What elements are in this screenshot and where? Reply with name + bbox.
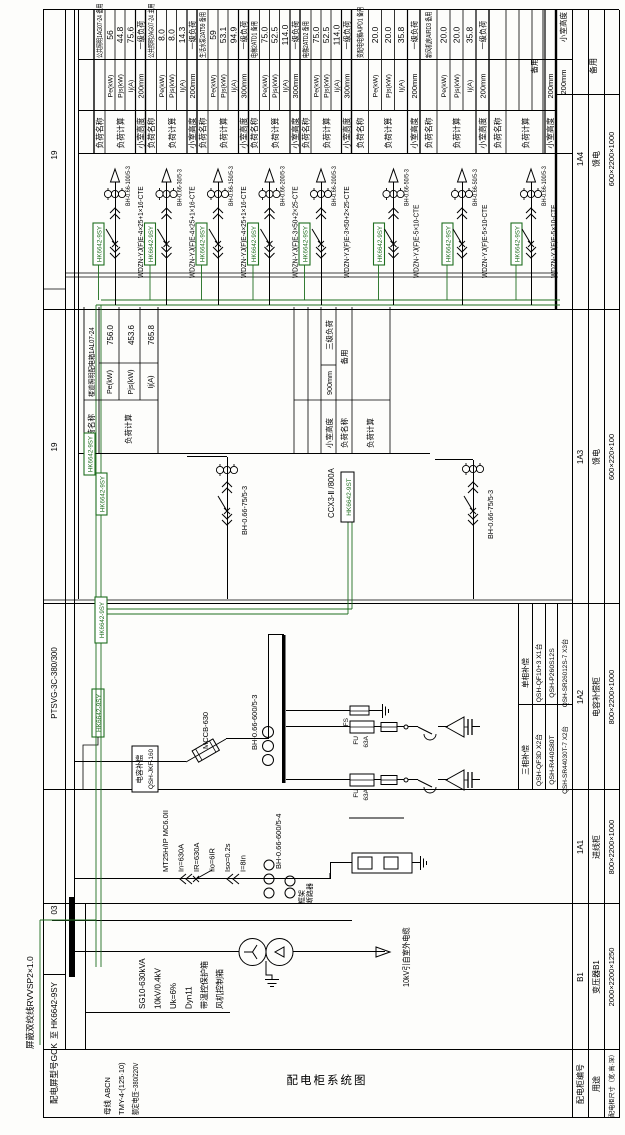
feeder circuit 4 wire (269, 182, 271, 305)
svg-text:小室高度: 小室高度 (545, 117, 555, 148)
panel divider 1A3/1A4 x=825 (43, 309, 619, 311)
1A1 ACB breaker (196, 870, 212, 879)
svg-text:94.9: 94.9 (228, 26, 238, 43)
svg-text:CCX3-Ⅱ /800A: CCX3-Ⅱ /800A (327, 467, 336, 518)
svg-text:小室高度: 小室高度 (558, 12, 568, 42)
1A1 metering box (352, 853, 412, 873)
svg-text:14.3: 14.3 (177, 26, 187, 43)
svg-text:馈电: 馈电 (591, 151, 601, 167)
svg-text:HK6642-9SY: HK6642-9SY (303, 226, 310, 262)
svg-text:备用: 备用 (588, 58, 598, 74)
svg-text:TMY-4-(125·10): TMY-4-(125·10) (117, 1062, 126, 1115)
1A3 feeder wire1 (227, 457, 229, 599)
svg-text:BH-0.66-50/5-3: BH-0.66-50/5-3 (404, 169, 411, 206)
green drop to 1A3 meter C (347, 522, 349, 614)
feeder circuit 1 meter label (93, 223, 104, 265)
svg-text:53.1: 53.1 (218, 26, 228, 43)
1A1 metering ground (412, 862, 420, 864)
svg-text:小室高度: 小室高度 (324, 418, 334, 448)
transformer neutral ground wire (266, 961, 272, 980)
feeder circuit 1 arrow (111, 169, 120, 182)
svg-text:BH-0.66-600/5-4: BH-0.66-600/5-4 (274, 814, 283, 869)
svg-text:20.0: 20.0 (383, 26, 393, 43)
feeder circuit 3 arrow (214, 169, 223, 182)
svg-text:Pjs(kW): Pjs(kW) (118, 74, 125, 98)
svg-text:QSH-R440S80T: QSH-R440S80T (549, 735, 556, 785)
svg-text:BH-0.66-75/5-3: BH-0.66-75/5-3 (486, 490, 495, 539)
svg-text:765.8: 765.8 (147, 324, 156, 345)
svg-text:QSH-SR26012S-7 X3台: QSH-SR26012S-7 X3台 (560, 639, 569, 708)
svg-text:Pe(kW): Pe(kW) (211, 75, 218, 98)
svg-text:BH-0.66-100/5-3: BH-0.66-100/5-3 (126, 166, 133, 206)
svg-text:配电屏型号GCK: 配电屏型号GCK (49, 1043, 59, 1104)
feeder circuit 5 meter label (299, 223, 310, 265)
svg-text:52.5: 52.5 (321, 26, 331, 43)
feeder circuit 4 green drop (252, 265, 254, 300)
svg-text:Pjs(kW): Pjs(kW) (221, 74, 228, 98)
svg-text:35.8: 35.8 (465, 26, 475, 43)
svg-text:75.0: 75.0 (260, 26, 270, 43)
svg-text:MCCB-630: MCCB-630 (201, 712, 210, 749)
svg-text:200mm: 200mm (188, 73, 197, 98)
svg-text:SG10-630kVA: SG10-630kVA (138, 958, 147, 1009)
svg-text:配电柜尺寸（宽·高·深）: 配电柜尺寸（宽·高·深） (608, 1051, 616, 1117)
svg-text:负荷名称: 负荷名称 (424, 117, 434, 148)
svg-text:BH-0.66-30/5-3: BH-0.66-30/5-3 (177, 169, 184, 206)
svg-text:44.8: 44.8 (115, 26, 125, 43)
feeder circuit 5 wire (321, 182, 323, 305)
1A3 feeder1 meter green label (84, 433, 95, 475)
svg-text:Ij(A): Ij(A) (231, 80, 238, 92)
svg-text:电容补偿: 电容补偿 (135, 755, 144, 784)
svg-text:风机控制箱: 风机控制箱 (215, 969, 225, 1009)
svg-text:75.0: 75.0 (311, 26, 321, 43)
svg-text:200mm: 200mm (559, 69, 568, 94)
svg-text:300mm: 300mm (343, 73, 352, 98)
feeder circuit 6 meter label (374, 223, 385, 265)
svg-text:HK6642-9SY: HK6642-9SY (148, 226, 155, 262)
feeder circuit 3 wire (218, 182, 220, 305)
svg-text:800×2200×1000: 800×2200×1000 (607, 820, 616, 875)
svg-text:200mm: 200mm (546, 73, 555, 98)
svg-text:56: 56 (105, 30, 115, 40)
svg-text:配电柜系统图: 配电柜系统图 (287, 1074, 368, 1087)
10kV incoming arrow (376, 947, 390, 957)
svg-text:HK6642-9SY: HK6642-9SY (100, 476, 107, 512)
svg-text:Pjs(kW): Pjs(kW) (272, 74, 279, 98)
svg-text:HK6642-9SY: HK6642-9SY (88, 436, 95, 472)
feeder circuit 7 arrow (458, 169, 467, 182)
svg-text:Ij(A): Ij(A) (334, 80, 341, 92)
svg-text:HK6642-9SY: HK6642-9SY (200, 226, 207, 262)
svg-text:BH-0.66-200/5-3: BH-0.66-200/5-3 (280, 166, 287, 206)
svg-text:1A4: 1A4 (576, 151, 585, 166)
svg-text:BH-0.66-75/5-3: BH-0.66-75/5-3 (240, 486, 249, 535)
fuse FU 63A (350, 721, 374, 733)
feeder circuit 4 meter label (248, 223, 259, 265)
summary table line y=556 (555, 10, 557, 310)
svg-text:8.0: 8.0 (167, 29, 177, 41)
summary col x=1040 (557, 94, 619, 96)
feeder circuit 6 arrow (389, 169, 398, 182)
top row line y=65 (65, 10, 67, 1050)
svg-text:电容补偿柜: 电容补偿柜 (591, 677, 601, 717)
feeder circuit 5 green drop (304, 265, 306, 300)
1A2 capacitor branch x=408 wire (286, 726, 350, 728)
svg-text:35.8: 35.8 (396, 26, 406, 43)
contact dot (404, 725, 408, 729)
svg-text:19: 19 (50, 442, 59, 451)
band 7 boundary (419, 10, 421, 154)
svg-text:进线柜: 进线柜 (591, 835, 601, 859)
1A1 PT tap wire x=214 (52, 920, 352, 922)
svg-text:03: 03 (50, 905, 59, 914)
svg-text:I=8In: I=8In (239, 855, 248, 872)
svg-text:FU: FU (353, 789, 360, 798)
svg-text:WDZN-YJ(F)E-3×50+2×25-CTE: WDZN-YJ(F)E-3×50+2×25-CTE (344, 186, 351, 278)
feeder circuit 1 wire (115, 182, 117, 305)
svg-text:Dyn11: Dyn11 (185, 986, 194, 1009)
feeder circuit 5 arrow (317, 169, 326, 182)
line y=543 (542, 10, 544, 154)
green exit horizontal (39, 920, 41, 1045)
svg-text:QSH-QF10+3 X1台: QSH-QF10+3 X1台 (534, 643, 543, 702)
svg-text:小室高度: 小室高度 (136, 117, 146, 148)
svg-text:QSH-SR44030T-7 X2台: QSH-SR44030T-7 X2台 (560, 726, 569, 794)
svg-text:一级负荷: 一级负荷 (410, 21, 419, 50)
svg-text:QSH-P260S12S: QSH-P260S12S (549, 648, 556, 698)
1A3 meter C label (341, 472, 354, 522)
svg-text:20.0: 20.0 (452, 26, 462, 43)
band 6 boundary (351, 10, 353, 154)
band 2 boundary (145, 10, 147, 154)
svg-text:FS: FS (343, 717, 350, 726)
1A2 wire to CTs (226, 738, 268, 740)
svg-text:Uk=6%: Uk=6% (169, 983, 178, 1009)
feeder circuit 2 wire (166, 182, 168, 305)
svg-text:三级负荷: 三级负荷 (324, 320, 334, 350)
svg-text:300mm: 300mm (240, 73, 249, 98)
svg-text:负荷名称: 负荷名称 (355, 117, 365, 148)
band 7 row lines (436, 10, 438, 154)
feeder circuit 8 wire (531, 182, 533, 305)
1A2 riser to cap bus (268, 634, 284, 636)
panel divider margin/B1 x=85 (43, 1049, 619, 1051)
svg-text:负荷计算: 负荷计算 (452, 117, 462, 148)
svg-text:900mm: 900mm (325, 371, 334, 395)
feeder circuit 8 arrow (527, 169, 536, 182)
feeder circuit 2 meter label (145, 223, 156, 265)
svg-text:负荷计算: 负荷计算 (321, 117, 331, 148)
1A3 feeder1b meter green label (95, 597, 107, 643)
feeder circuit 1 green drop (98, 265, 100, 300)
svg-text:Ij(A): Ij(A) (128, 80, 135, 92)
svg-text:负荷名称: 负荷名称 (339, 418, 349, 448)
1A2 compensation table (518, 604, 520, 790)
svg-text:Pjs(kW): Pjs(kW) (386, 74, 393, 98)
svg-text:B1: B1 (576, 972, 585, 982)
svg-text:2000×2200×1250: 2000×2200×1250 (607, 948, 616, 1007)
svg-text:200mm: 200mm (479, 73, 488, 98)
svg-text:电梯2ATD1 备用: 电梯2ATD1 备用 (250, 21, 259, 58)
svg-text:63A: 63A (363, 735, 370, 747)
green exit riser (40, 919, 96, 921)
svg-text:WDZN-YJ(F)E-5×10-CTE: WDZN-YJ(F)E-5×10-CTE (551, 204, 558, 278)
svg-text:负荷计算: 负荷计算 (115, 117, 125, 148)
svg-text:Pjs(kW): Pjs(kW) (126, 369, 135, 394)
feeder circuit 7 green drop (446, 265, 448, 300)
svg-text:负荷计算: 负荷计算 (270, 117, 280, 148)
green 1A4 riser pair (96, 304, 560, 306)
svg-text:一级负荷: 一级负荷 (343, 21, 352, 50)
band 1 row lines (104, 10, 106, 154)
svg-text:负荷名称: 负荷名称 (198, 117, 208, 148)
svg-text:负荷计算: 负荷计算 (123, 414, 133, 444)
svg-text:HK6642-9SY: HK6642-9SY (99, 602, 106, 638)
svg-text:QSH-JKF-160: QSH-JKF-160 (148, 748, 155, 789)
feeder circuit 2 arrow (162, 169, 171, 182)
svg-text:Pjs(kW): Pjs(kW) (454, 74, 461, 98)
svg-text:200mm: 200mm (137, 73, 146, 98)
1A2 incoming wire (74, 761, 186, 763)
svg-text:负荷名称: 负荷名称 (493, 117, 503, 148)
1A1 meter circles (285, 888, 295, 898)
svg-text:负荷计算: 负荷计算 (218, 117, 228, 148)
band 5 boundary (299, 10, 301, 154)
svg-text:1A1: 1A1 (576, 839, 585, 854)
line y=85 B1 top (85, 904, 87, 1050)
svg-text:8.0: 8.0 (157, 29, 167, 41)
svg-text:In=630A: In=630A (177, 844, 186, 872)
svg-text:HK6642-9SY: HK6642-9SY (97, 226, 104, 262)
svg-text:Pe(kW): Pe(kW) (105, 370, 114, 394)
summary table line y=572 (572, 10, 574, 1118)
feeder circuit 7 wire (462, 182, 464, 305)
svg-text:至 HK6642-9SY: 至 HK6642-9SY (50, 981, 59, 1039)
svg-text:114.0: 114.0 (331, 24, 341, 45)
capacitor plates (467, 772, 469, 788)
green 1A3 riser pair (101, 613, 348, 615)
contact dot (404, 778, 408, 782)
summary table line y=604 (604, 10, 606, 1118)
1A2 label connection (83, 737, 98, 790)
svg-text:QSH-QF3D X2台: QSH-QF3D X2台 (534, 734, 543, 786)
band 3 row lines (207, 10, 209, 154)
svg-text:Ij(A): Ij(A) (282, 80, 289, 92)
feeder circuit 8 green drop (515, 265, 517, 300)
band 5 row lines (310, 10, 312, 154)
transformer B1 HV-LV wire (75, 951, 239, 953)
svg-text:带温控保护箱: 带温控保护箱 (199, 961, 209, 1009)
transformer B1 winding D (266, 939, 293, 966)
svg-text:BH-0.66-100/5-3: BH-0.66-100/5-3 (542, 166, 549, 206)
svg-text:Pjs(kW): Pjs(kW) (169, 74, 176, 98)
svg-text:BH-0.66-50/5-3: BH-0.66-50/5-3 (473, 169, 480, 206)
svg-text:10kV/0.4kV: 10kV/0.4kV (154, 967, 163, 1009)
svg-text:MT25H/IP MC6.0II: MT25H/IP MC6.0II (161, 810, 170, 872)
svg-text:备用: 备用 (339, 350, 349, 365)
1A2 MCCB diagonal (186, 739, 226, 762)
svg-text:59: 59 (208, 30, 218, 40)
svg-text:一级负荷: 一级负荷 (479, 21, 488, 50)
svg-text:Iio=6IR: Iio=6IR (208, 847, 217, 872)
svg-text:52.5: 52.5 (270, 26, 280, 43)
capacitor bank triangle (446, 770, 464, 790)
svg-text:Iso=0.2s: Iso=0.2s (223, 843, 232, 872)
svg-text:负荷名称: 负荷名称 (95, 117, 105, 148)
border frame (43, 10, 45, 1118)
svg-text:Pe(kW): Pe(kW) (373, 75, 380, 98)
svg-text:FU: FU (353, 736, 360, 745)
svg-text:Ij(A): Ij(A) (399, 80, 406, 92)
svg-text:一级负荷: 一级负荷 (240, 21, 249, 50)
svg-text:PTSVG-3C-380/300: PTSVG-3C-380/300 (50, 647, 59, 719)
svg-text:Pe(kW): Pe(kW) (441, 75, 448, 98)
svg-text:负荷名称: 负荷名称 (249, 117, 259, 148)
svg-text:1A2: 1A2 (576, 689, 585, 704)
top row divider x=160 (43, 974, 65, 976)
1A1 drawout chevrons lower (227, 874, 239, 884)
svg-text:一级负荷: 一级负荷 (137, 21, 146, 50)
band 6 row lines (368, 10, 370, 154)
svg-text:小室高度: 小室高度 (342, 117, 352, 148)
panel divider 1A1/1A2 x=345 (43, 789, 619, 791)
1A1 CT circles (264, 888, 274, 898)
feeder circuit 4 arrow (265, 169, 274, 182)
svg-text:600×2200×1000: 600×2200×1000 (607, 132, 616, 187)
summary col x=1075 seg (540, 59, 572, 61)
contactor (418, 727, 432, 734)
summary table line y=588 (588, 10, 590, 1118)
svg-text:75.6: 75.6 (125, 26, 135, 43)
transformer B1 winding Y (239, 939, 266, 966)
svg-text:小室高度: 小室高度 (239, 117, 249, 148)
svg-text:Pe(kW): Pe(kW) (108, 75, 115, 98)
svg-text:WDZN-YJ(F)E-5×10-CTE: WDZN-YJ(F)E-5×10-CTE (413, 204, 420, 278)
svg-text:Pe(kW): Pe(kW) (262, 75, 269, 98)
line y=78 load table top (78, 10, 80, 599)
svg-text:20.0: 20.0 (439, 26, 449, 43)
svg-text:63A: 63A (363, 788, 370, 800)
feeder circuit 3 meter label (196, 223, 207, 265)
1A1 drawout chevrons upper (180, 874, 192, 884)
panel divider B1/1A1 x=231 (43, 903, 619, 905)
band 4 boundary (248, 10, 250, 154)
1A2 function box 电容补偿 (132, 746, 158, 792)
load table column lines (78, 153, 572, 155)
1A2 arrester branch wire (286, 710, 350, 712)
feeder circuit 8 meter label (511, 223, 522, 265)
svg-text:HK6642-9SY: HK6642-9SY (96, 693, 103, 732)
svg-text:小室高度: 小室高度 (478, 117, 488, 148)
1A2 arrester box (350, 706, 369, 715)
svg-text:200mm: 200mm (410, 73, 419, 98)
1A1 aux line (349, 817, 404, 819)
svg-text:负荷名称: 负荷名称 (146, 117, 156, 148)
B1 inner vertical x=122 (85, 1012, 230, 1014)
1A1 incoming wire x=256 (74, 878, 330, 880)
svg-text:小室高度: 小室高度 (290, 117, 300, 148)
svg-text:配电柜编号: 配电柜编号 (575, 1064, 585, 1104)
svg-text:20.0: 20.0 (370, 26, 380, 43)
svg-text:114.0: 114.0 (280, 24, 290, 45)
1A3 feeder wire2 (473, 460, 475, 599)
svg-text:19: 19 (50, 150, 59, 159)
1A2 capacitor bus thick (282, 635, 286, 783)
svg-text:负荷计算: 负荷计算 (521, 117, 531, 148)
svg-text:屏蔽双绞线RVVSP2×1.0: 屏蔽双绞线RVVSP2×1.0 (25, 956, 35, 1049)
svg-text:变配电电箱AIPD1 备用: 变配电电箱AIPD1 备用 (356, 7, 365, 58)
svg-text:BH-0.66-150/5-3: BH-0.66-150/5-3 (229, 166, 236, 206)
svg-text:600×220×100: 600×220×100 (607, 434, 616, 480)
band 8 row lines (505, 10, 507, 154)
main busbar line y=74 (74, 10, 76, 977)
fuse FU 63A (350, 774, 374, 786)
1A3 load table grid (78, 453, 430, 455)
1A2 capacitor branch x=355 wire (286, 779, 350, 781)
svg-text:Pe(kW): Pe(kW) (159, 75, 166, 98)
svg-text:框架: 框架 (297, 890, 306, 904)
capacitor plates (467, 719, 469, 735)
svg-text:负荷计算: 负荷计算 (365, 418, 375, 448)
svg-text:新风机房AIRD3 备用: 新风机房AIRD3 备用 (424, 12, 433, 58)
contactor (418, 780, 432, 787)
1A3 feeder2 meter green label (96, 473, 107, 515)
svg-text:HK6642-9ST: HK6642-9ST (346, 478, 353, 516)
band 3 boundary (196, 10, 198, 154)
svg-text:负荷名称: 负荷名称 (301, 117, 311, 148)
svg-text:公共照明1AG07-24 备用: 公共照明1AG07-24 备用 (95, 4, 104, 58)
svg-text:Ij(A): Ij(A) (179, 80, 186, 92)
capacitor bank triangle (446, 717, 464, 737)
svg-text:用途: 用途 (591, 1076, 601, 1092)
svg-text:BH-0.66-200/5-3: BH-0.66-200/5-3 (332, 166, 339, 206)
svg-text:756.0: 756.0 (106, 324, 115, 345)
svg-text:Pe(kW): Pe(kW) (314, 75, 321, 98)
band 8 boundary (488, 10, 490, 154)
svg-text:小室高度: 小室高度 (409, 117, 419, 148)
top row divider x=846 (43, 288, 65, 290)
10kV incoming wire (293, 951, 385, 953)
svg-text:负荷计算: 负荷计算 (167, 117, 177, 148)
feeder circuit 3 green drop (201, 265, 203, 300)
svg-text:单相补偿: 单相补偿 (520, 658, 530, 688)
svg-text:额定电压~380/220V: 额定电压~380/220V (130, 1062, 140, 1115)
svg-text:Ij(A): Ij(A) (146, 375, 155, 388)
1A4 inner border x=858 (65, 276, 558, 278)
band 2 row lines (156, 10, 158, 154)
1A2 arrester ground (382, 704, 384, 718)
svg-text:HK6642-9SY: HK6642-9SY (515, 226, 522, 262)
svg-text:小室高度: 小室高度 (187, 117, 197, 148)
panel divider 1A2/1A3 x=531 (43, 603, 619, 605)
svg-text:一级负荷: 一级负荷 (291, 21, 300, 50)
svg-text:Pjs(kW): Pjs(kW) (324, 74, 331, 98)
ground symbol B1 (265, 979, 279, 981)
fuse element (381, 723, 397, 732)
svg-text:公共照明2AG07-24 主用: 公共照明2AG07-24 主用 (147, 4, 156, 58)
svg-text:10kV引自室外电缆: 10kV引自室外电缆 (401, 927, 412, 987)
svg-text:变压器B1: 变压器B1 (591, 960, 601, 994)
busbar thick bar B1 (69, 897, 75, 977)
svg-text:HK6642-9SY: HK6642-9SY (377, 226, 384, 262)
svg-text:断路器: 断路器 (305, 883, 314, 904)
svg-text:馈电: 馈电 (591, 449, 601, 465)
feeder circuit 2 green drop (149, 265, 151, 300)
svg-text:WDZN-YJ(F)E-5×10-CTE: WDZN-YJ(F)E-5×10-CTE (482, 204, 489, 278)
svg-text:1A3: 1A3 (576, 449, 585, 464)
feeder circuit 7 meter label (442, 223, 453, 265)
